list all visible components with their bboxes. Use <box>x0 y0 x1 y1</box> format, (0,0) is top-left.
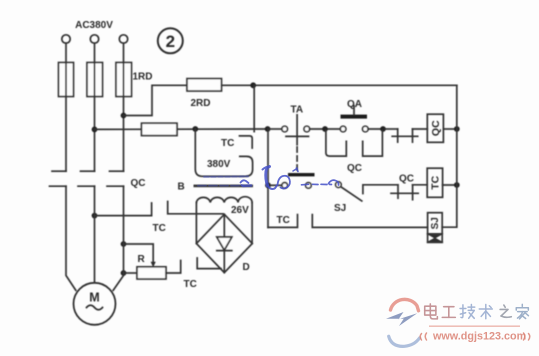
coil TC box <box>427 168 442 197</box>
node rail row2 <box>454 182 460 188</box>
wire top rail <box>222 84 457 86</box>
node row2 left <box>265 182 271 188</box>
transformer TC primary winding <box>195 129 252 176</box>
contact QC NC row1 <box>385 129 427 142</box>
contactor QC main contacts <box>50 171 124 186</box>
wire QA to node <box>368 128 385 130</box>
svg-text:QA: QA <box>347 99 362 110</box>
svg-text:TC: TC <box>153 223 166 234</box>
contact TC 1 right side <box>168 202 223 214</box>
wire phase2 down to QC break <box>94 97 96 172</box>
contact QC self-hold <box>326 131 383 157</box>
node TC primary left <box>192 126 198 132</box>
svg-text:www.dgjs123.com: www.dgjs123.com <box>432 331 526 343</box>
wire right rail <box>442 85 457 227</box>
switch SJ pivot <box>336 182 342 188</box>
wire R wiper with arrow <box>124 244 156 267</box>
fuse 3RD control <box>142 123 178 135</box>
char ji <box>460 305 475 319</box>
watermark logo <box>386 299 420 346</box>
contact TC row3 <box>268 215 428 228</box>
svg-text:B: B <box>178 182 185 193</box>
wire SJ post to QC NC <box>363 185 398 194</box>
wire L1 stem <box>65 43 67 62</box>
node QA right <box>380 126 386 132</box>
wire L3 stem <box>123 43 125 62</box>
wire 2RD feed <box>124 85 188 115</box>
wire R left <box>124 272 138 274</box>
node control row1 left <box>265 126 271 132</box>
svg-text:QC: QC <box>347 163 362 174</box>
svg-text:TC: TC <box>221 138 234 149</box>
wire phase3 down to QC break <box>123 97 125 172</box>
svg-text:AC380V: AC380V <box>75 20 113 31</box>
coil QC box <box>427 114 443 142</box>
button TA NC contact <box>270 115 310 145</box>
svg-text:R: R <box>138 254 146 265</box>
wire secondary right arm <box>251 203 253 244</box>
node phase2 control tap <box>92 126 98 132</box>
watermark banner www.dgjs123.com <box>420 326 530 342</box>
switch SJ blade <box>341 187 362 201</box>
node R wiper tap <box>121 241 127 247</box>
wire TA to QA <box>310 128 341 130</box>
wire secondary left arm <box>195 203 197 244</box>
char jia <box>516 304 528 319</box>
wire phase1 down to QC break <box>65 97 67 172</box>
node R left <box>121 270 127 276</box>
svg-text:TC: TC <box>429 175 441 189</box>
button QA NO contact <box>340 106 368 132</box>
terminal L2 <box>90 35 98 43</box>
svg-text:2: 2 <box>166 32 175 51</box>
fuse 1RD pole 1 <box>59 63 74 97</box>
relay SJ box <box>428 213 443 243</box>
char zhi <box>500 305 511 317</box>
wire left rail row2 <box>267 129 269 227</box>
wire phase2 tap to TC contact <box>95 203 152 216</box>
svg-text:TC: TC <box>184 279 197 290</box>
fuse 1RD pole 3 <box>116 63 132 97</box>
transformer core <box>194 185 254 188</box>
wire QC box to rail <box>443 128 456 130</box>
svg-text:QC: QC <box>131 178 146 189</box>
terminal L3 <box>119 35 127 43</box>
wire control feed <box>95 128 268 130</box>
svg-text:SJ: SJ <box>334 203 346 214</box>
contact TC 2 right side <box>197 258 221 269</box>
svg-text:QC: QC <box>399 174 414 185</box>
watermark text dianggong jishu zhijia <box>425 304 529 319</box>
resistor R <box>137 267 166 279</box>
bridge rectifier D diamond <box>196 214 252 272</box>
node top rail to TC primary <box>250 82 256 88</box>
char shu <box>479 305 492 319</box>
diode inside bridge <box>217 214 232 272</box>
transformer TC primary feed <box>253 85 255 131</box>
wire phase3 to motor <box>113 186 123 290</box>
node motor phase2 tap <box>92 213 98 219</box>
svg-text:TC: TC <box>277 215 290 226</box>
char gong <box>442 307 455 318</box>
circled number 2 <box>158 28 183 53</box>
svg-text:SJ: SJ <box>430 217 441 229</box>
svg-text:TA: TA <box>291 105 304 116</box>
terminal L1 <box>62 35 70 43</box>
svg-text:26V: 26V <box>231 205 249 216</box>
svg-text:D: D <box>243 262 250 273</box>
wire phase2 to motor <box>94 186 96 283</box>
linkage dashes TA <box>296 147 298 174</box>
contact QC NC row2 <box>391 185 427 200</box>
wire phase1 to motor <box>66 186 76 290</box>
transformer TC secondary winding <box>196 197 252 203</box>
wire R right to TC contact <box>166 261 181 274</box>
button TA NO contact row2 <box>268 173 315 188</box>
node rail row1 <box>454 126 460 132</box>
svg-text:380V: 380V <box>207 159 231 170</box>
node phase3 to 2RD tap <box>121 113 127 119</box>
node QA left <box>322 126 328 132</box>
watermark blue scribbles <box>198 167 339 190</box>
wire L2 stem <box>94 43 96 62</box>
fuse 1RD pole 2 <box>87 63 103 97</box>
motor M <box>74 283 116 325</box>
svg-text:QC: QC <box>430 120 442 136</box>
svg-text:1RD: 1RD <box>133 72 153 83</box>
svg-text:2RD: 2RD <box>191 98 211 109</box>
char dian <box>425 304 438 319</box>
fuse 2RD <box>187 79 222 91</box>
wire TC box to rail <box>443 184 457 186</box>
svg-text:M: M <box>89 291 99 305</box>
